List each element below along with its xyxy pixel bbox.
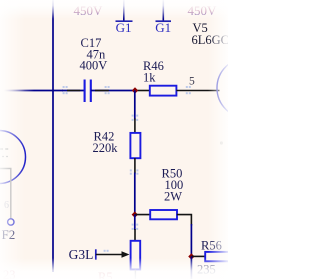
pin 1 of R50 (black) xyxy=(135,214,151,216)
wire main horizontal into C17 xyxy=(0,90,63,92)
svg-text:5: 5 xyxy=(189,76,195,88)
capacitor C17 xyxy=(85,80,91,103)
faint pin number 2 of R42 xyxy=(130,169,139,174)
pin 2 of R50 (black) xyxy=(177,215,192,226)
svg-text:235: 235 xyxy=(197,263,216,277)
tube V5 label xyxy=(192,21,230,47)
potentiometer body xyxy=(131,241,141,270)
resistor R56 body xyxy=(205,252,231,261)
wiper wire G3L (black) xyxy=(96,254,122,256)
wire to G1 connector 2 xyxy=(162,0,164,21)
svg-text:400V: 400V xyxy=(80,59,108,73)
resistor R42 body xyxy=(130,133,140,158)
pin connector F2 circle xyxy=(8,219,14,225)
junction node C xyxy=(188,253,194,259)
faint pin mark xyxy=(186,86,191,94)
pin 2 of R42 (black) xyxy=(134,158,136,174)
svg-text:G1: G1 xyxy=(116,20,132,35)
wiper arrow xyxy=(122,251,130,258)
svg-text:450V: 450V xyxy=(74,3,104,18)
junction node B xyxy=(132,211,138,217)
svg-text:R56: R56 xyxy=(201,239,222,253)
wire R42 to node B xyxy=(134,173,136,216)
pot bottom pin stub xyxy=(134,270,136,279)
tube V4 cathode xyxy=(0,169,11,219)
wire node B down to pot xyxy=(134,215,136,231)
svg-text:23: 23 xyxy=(3,268,16,279)
tube V5 envelope arc xyxy=(217,58,277,118)
svg-text:G3L: G3L xyxy=(69,247,94,262)
label R42 value xyxy=(93,130,119,156)
faint pin number 1 of C17 xyxy=(63,86,68,94)
svg-text:R5: R5 xyxy=(98,270,113,279)
wire to G1 connector 1 xyxy=(123,0,125,21)
pin 1 of C17 (black) xyxy=(67,90,80,92)
svg-text:450V: 450V xyxy=(188,3,218,18)
pin 1 of R42 (black) xyxy=(134,119,136,134)
tube V4 envelope arc left xyxy=(0,131,26,184)
svg-text:1k: 1k xyxy=(143,71,156,85)
resistor R46 body xyxy=(150,86,177,96)
faint pin number 1 of pot xyxy=(132,224,139,230)
svg-text:F2: F2 xyxy=(2,227,16,242)
svg-text:6: 6 xyxy=(4,200,9,211)
wire C17 pin2 to node xyxy=(91,90,136,92)
wire node A down to R42 xyxy=(134,90,136,119)
port G1 connector 2 xyxy=(155,20,171,35)
port G3L tick xyxy=(95,249,97,259)
pin of pot (black) xyxy=(134,229,136,242)
wire into C17 pin1 xyxy=(62,90,85,92)
pin 1 of R46 (black) xyxy=(135,90,151,92)
faint pin number 1 of R42 xyxy=(132,115,139,121)
pin 2 of R46 to tube (black) xyxy=(176,90,219,92)
svg-text:2W: 2W xyxy=(164,190,182,204)
resistor R50 body xyxy=(150,210,177,219)
port G1 connector 1 xyxy=(116,20,133,35)
label R46 value xyxy=(143,59,164,85)
label R50 value xyxy=(162,167,184,204)
pin 1 of R56 (black) xyxy=(191,255,205,257)
wire below node C xyxy=(190,256,192,279)
junction node A xyxy=(132,87,138,93)
pin 2 of C17 (black) xyxy=(95,90,109,92)
svg-text:6L6GC: 6L6GC xyxy=(192,33,229,47)
label C17 value xyxy=(80,36,108,73)
wire vertical long at x=53 xyxy=(52,0,54,272)
wire down to node C xyxy=(190,224,192,257)
svg-text:220k: 220k xyxy=(93,141,119,155)
tube V4 grid (grey dashes) xyxy=(0,148,10,150)
faint pin number 2 of C17 xyxy=(105,86,110,94)
stray mark xyxy=(220,141,223,144)
faint pin number 3 of pot xyxy=(104,250,109,252)
svg-text:G1: G1 xyxy=(155,20,171,35)
tube V4 inner mark xyxy=(2,156,8,158)
